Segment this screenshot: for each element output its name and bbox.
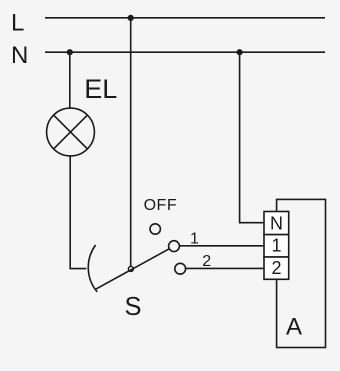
switch S lever: [95, 249, 169, 290]
switch S pivot: [128, 266, 133, 271]
svg-text:1: 1: [272, 236, 282, 256]
svg-text:OFF: OFF: [144, 197, 178, 214]
wire from L rail to switch pivot: [130, 18, 132, 267]
node junction on N rail left: [67, 49, 73, 55]
switch contact OFF: [150, 224, 160, 234]
wire from N rail to terminal N: [240, 52, 264, 223]
terminal N: [264, 212, 289, 235]
wire from N rail to lamp: [69, 52, 71, 108]
wire from lamp to switch arc: [70, 156, 86, 268]
svg-text:N: N: [270, 214, 283, 234]
svg-text:A: A: [286, 314, 302, 341]
switch S travel arc: [88, 245, 97, 292]
wire N rail: [45, 51, 325, 53]
lamp EL: [47, 108, 95, 156]
switch contact 1: [169, 241, 180, 252]
wire contact 2 to terminal 2: [186, 267, 264, 269]
svg-text:EL: EL: [84, 74, 117, 104]
svg-text:S: S: [125, 293, 142, 321]
switch contact 2: [175, 263, 186, 274]
node junction on L rail: [128, 15, 134, 21]
svg-text:2: 2: [272, 258, 282, 278]
svg-text:2: 2: [202, 253, 211, 270]
terminal 2: [264, 257, 289, 279]
terminal 1: [264, 235, 289, 257]
wire contact 1 to terminal 1: [179, 245, 264, 247]
wire L rail: [45, 17, 325, 19]
svg-text:N: N: [11, 42, 28, 69]
node junction on N rail right: [237, 49, 243, 55]
svg-text:1: 1: [190, 231, 199, 248]
appliance box A: [277, 199, 326, 347]
svg-text:L: L: [11, 10, 24, 37]
